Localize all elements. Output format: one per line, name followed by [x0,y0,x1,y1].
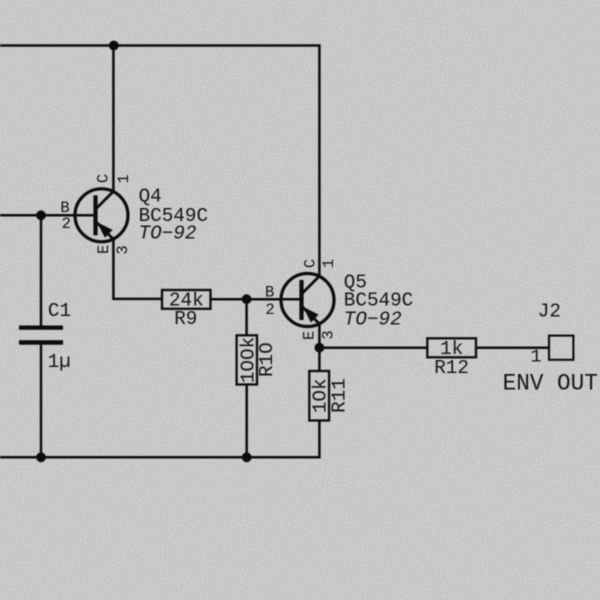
wire: top rail and down to Q5 collector [0,46,319,277]
wire: Q4 collector vertical [112,46,115,192]
svg-text:E: E [95,245,113,254]
svg-text:R1O: R1O [256,342,278,377]
svg-text:J2: J2 [538,301,561,323]
wire: bottom rail up to R11 [0,421,319,458]
junction: bottom rail / C1 [36,452,46,462]
junction: base wire / C1 [36,210,46,220]
svg-text:R9: R9 [174,308,197,330]
resistor R9 box [162,290,211,309]
wire: Q4 base from left edge [0,214,96,217]
svg-text:1: 1 [115,174,133,183]
wire: R12 to J2 [476,346,549,349]
wire: C1 bottom lead [40,345,43,458]
capacitor C1 plates [19,326,63,345]
junction: bottom rail / R10 [242,452,252,462]
wire: R10 bottom to rail [245,385,248,458]
wire: C1 top lead [40,215,43,326]
svg-text:TO−92: TO−92 [139,222,197,244]
junction: Q5 emitter / R11 / out [315,343,325,353]
svg-text:3: 3 [114,245,132,254]
resistor R11 box [309,371,329,421]
svg-text:C1: C1 [48,300,71,322]
junction: R9 / R10 / Q5 base [242,294,252,304]
wire: Q5 emitter down to R11 [318,324,321,371]
svg-text:C: C [301,259,319,268]
svg-text:R11: R11 [328,378,350,413]
connector J2 square [549,336,573,360]
svg-text:1µ: 1µ [48,351,71,373]
transistor Q4 [75,189,128,242]
svg-text:1: 1 [320,259,338,268]
resistor R12 box [427,338,476,357]
svg-text:TO−92: TO−92 [344,308,402,330]
resistor R10 box [237,335,257,384]
transistor Q5 [281,274,334,327]
svg-text:ENV OUT: ENV OUT [503,371,598,397]
svg-text:B: B [265,283,274,301]
svg-text:3: 3 [319,330,337,339]
wire: Q4 emitter down and right to R9 [113,239,162,299]
svg-text:1: 1 [530,347,541,368]
svg-text:C: C [94,174,112,183]
wire: R9 to Q5 base [211,298,302,301]
svg-text:2: 2 [62,215,71,233]
wire: emitter junction to R12 [319,346,427,349]
svg-text:2: 2 [265,301,274,319]
junction: top rail / Q4 collector [109,41,119,51]
wire: junction down to R10 [245,299,248,335]
svg-text:E: E [300,331,318,340]
svg-text:R12: R12 [434,357,469,379]
